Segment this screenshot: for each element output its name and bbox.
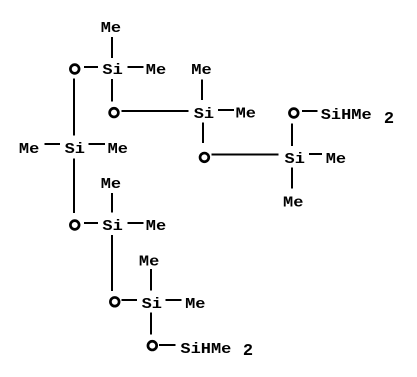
svg-text:2: 2 <box>384 110 394 129</box>
svg-text:SiHMe: SiHMe <box>321 107 372 124</box>
svg-text:Me: Me <box>185 296 205 313</box>
svg-text:Si: Si <box>65 141 85 158</box>
svg-text:Si: Si <box>102 62 122 79</box>
svg-text:Si: Si <box>194 106 214 123</box>
svg-text:SiHMe: SiHMe <box>180 341 231 358</box>
svg-text:Me: Me <box>326 151 346 168</box>
svg-text:Me: Me <box>101 176 121 193</box>
svg-text:Me: Me <box>236 105 256 122</box>
svg-text:Me: Me <box>139 254 159 271</box>
svg-text:Si: Si <box>285 151 305 168</box>
svg-text:Me: Me <box>191 62 211 79</box>
svg-text:Me: Me <box>108 141 128 158</box>
svg-text:Me: Me <box>101 20 121 37</box>
svg-text:Si: Si <box>102 218 122 235</box>
svg-text:Me: Me <box>146 218 166 235</box>
svg-text:2: 2 <box>243 342 253 361</box>
svg-text:Me: Me <box>19 141 39 158</box>
svg-text:Si: Si <box>142 296 162 313</box>
svg-text:Me: Me <box>283 194 303 211</box>
svg-text:Me: Me <box>146 62 166 79</box>
